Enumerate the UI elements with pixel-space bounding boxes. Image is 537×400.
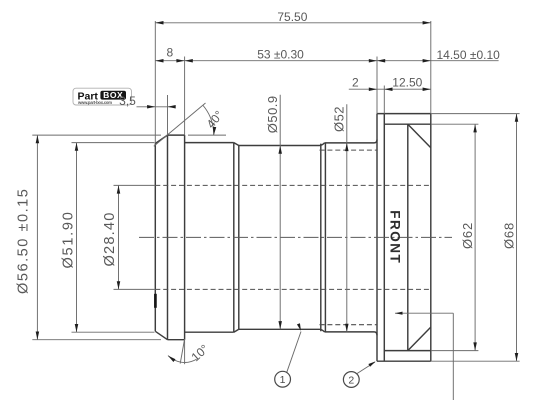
dimension Ø28.40 bore [102, 185, 155, 289]
svg-text:1: 1 [280, 374, 286, 386]
leader to rim (balloon cut off at bottom edge) [395, 312, 453, 400]
svg-text:2: 2 [348, 374, 354, 386]
tick mark on left face [154, 294, 157, 308]
svg-text:Ø28.40: Ø28.40 [102, 211, 118, 266]
svg-text:3,5: 3,5 [119, 94, 136, 108]
part outline: left face of adapter body [154, 144, 156, 332]
svg-text:Ø56.50 ±0.15: Ø56.50 ±0.15 [15, 188, 31, 294]
extension lines above part [155, 21, 431, 144]
part outline: bayonet feature with 45° chamfer diagonals [408, 124, 431, 350]
PartBOX logo [73, 88, 132, 105]
angle dimension 40° chamfer [154, 103, 226, 146]
svg-text:FRONT: FRONT [387, 210, 402, 264]
svg-text:53 ±0.30: 53 ±0.30 [257, 48, 304, 62]
part outline: rear face of flange [430, 114, 432, 362]
part outline: Ø62 inner bore edges of flange [384, 124, 431, 350]
dimension 3,5 chamfer width [119, 94, 176, 109]
svg-text:12.50: 12.50 [392, 75, 422, 89]
svg-text:Ø52: Ø52 [331, 106, 346, 132]
part outline: Ø50.9 middle section [239, 146, 320, 330]
dimension chain row: 8 / 53 ±0.30 / 14.50 ±0.10 [155, 45, 500, 62]
dimension Ø51.90 [61, 143, 155, 333]
dimension Ø50.9 [265, 95, 282, 329]
svg-text:8: 8 [166, 45, 173, 59]
balloon 1 with leader [275, 323, 301, 387]
svg-text:Ø51.90: Ø51.90 [61, 210, 77, 268]
part outline: flange rim edge (2 mm) [383, 114, 385, 362]
svg-text:14.50 ±0.10: 14.50 ±0.10 [437, 48, 501, 62]
svg-text:Ø68: Ø68 [502, 222, 517, 249]
svg-text:www.part-box.com: www.part-box.com [77, 100, 112, 105]
hidden line: thread relief under Ø52 ring [320, 150, 378, 325]
hidden line: Ø28.40 bore (bottom) [155, 288, 431, 290]
dimension Ø52 [331, 104, 348, 332]
dimension Ø62 [431, 124, 479, 350]
hidden line: Ø28.40 bore (top) [155, 184, 431, 186]
part outline: step up to Ø52 ring [320, 143, 326, 332]
centerline [139, 236, 452, 238]
part outline: flange front face [376, 114, 378, 362]
dimension Ø56.50 ±0.15 [15, 135, 161, 340]
FRONT label [387, 210, 402, 264]
part outline: Ø52 ring section [325, 140, 378, 336]
part outline: front chamfer edges (3,5 x 40°) [155, 135, 167, 340]
dimension row: 2 / 12.50 [349, 75, 431, 91]
dimension 75.50 overall length [155, 10, 431, 25]
part outline: Ø51.90 section with rear chamfer [185, 143, 239, 333]
svg-text:Ø62: Ø62 [460, 222, 475, 249]
svg-text:75.50: 75.50 [277, 10, 307, 24]
dimension Ø68 [431, 114, 520, 362]
part outline: Ø68 flange top and bottom edges [377, 114, 431, 362]
balloon 2 with leader [343, 361, 375, 387]
angle dimension 10° draft [168, 339, 212, 364]
svg-text:2: 2 [352, 76, 359, 90]
svg-text:Ø50.9: Ø50.9 [265, 95, 280, 133]
part outline: Ø56.50 collar section [168, 135, 185, 340]
